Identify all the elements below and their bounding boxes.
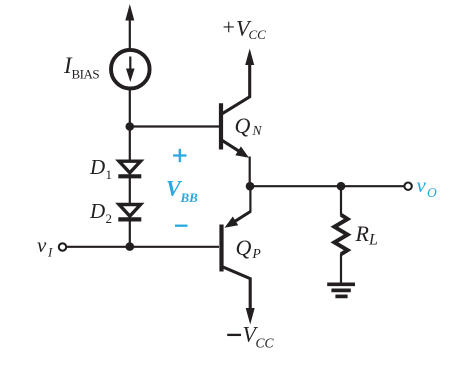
svg-text:L: L (368, 232, 378, 249)
Q_N collector lead (222, 61, 250, 114)
wire: output rail horizontal to v_O (250, 185, 404, 187)
wire: current source to node A (129, 89, 131, 127)
svg-text:I: I (47, 245, 53, 260)
ground (327, 284, 355, 296)
svg-text:v: v (417, 173, 427, 197)
Q_N base bar (219, 103, 223, 149)
label -VCC (227, 334, 241, 336)
svg-text:CC: CC (256, 336, 275, 351)
transistor Q_N (NPN) (221, 61, 250, 158)
transistor Q_P (PNP) (222, 212, 251, 310)
arrowhead to -VCC (246, 308, 255, 325)
Q_P base bar (219, 225, 223, 272)
label - (of V_BB, blue) (175, 225, 188, 227)
resistor R_L zigzag (334, 215, 347, 254)
label + (of V_BB, blue) (173, 149, 186, 162)
svg-text:D: D (89, 155, 105, 179)
arrowhead to +VCC (245, 49, 254, 66)
svg-text:+: + (223, 15, 235, 40)
terminal v_O (open circle) (404, 183, 411, 190)
svg-text:BIAS: BIAS (72, 67, 100, 82)
wire: output rail down to Q_P emitter (249, 186, 251, 212)
wire: Q_N emitter down to output rail (249, 157, 251, 187)
diode D1 (118, 161, 141, 176)
wire: R_L from output rail down to zigzag (340, 186, 342, 215)
Q_N emitter lead with arrow (222, 140, 240, 152)
wire: D1 cathode to D2 anode (129, 176, 131, 203)
diode D2 (118, 205, 141, 220)
svg-text:O: O (427, 185, 437, 200)
svg-text:N: N (252, 123, 263, 138)
svg-text:Q: Q (236, 235, 252, 260)
wire: node A to Q_N base (130, 125, 219, 127)
Q_P collector lead (223, 267, 251, 309)
node B (junction of D2, v_I, Q_P base) (126, 242, 135, 251)
node A (junction of I_BIAS, D1, Q_N base) (126, 122, 135, 131)
current source I_BIAS (111, 50, 150, 89)
svg-text:v: v (37, 233, 47, 257)
node: output rail at Q_N/Q_P emitters (246, 182, 255, 191)
svg-text:2: 2 (106, 211, 113, 226)
svg-text:1: 1 (106, 167, 113, 182)
wire: node A to D1 anode (129, 127, 131, 161)
node: output rail at R_L (337, 182, 346, 191)
wire: zigzag to ground (340, 254, 342, 285)
svg-text:D: D (89, 199, 105, 223)
Q_P emitter lead with arrow toward base bar (234, 212, 250, 222)
svg-text:Q: Q (235, 113, 251, 138)
svg-text:P: P (252, 246, 261, 261)
svg-text:R: R (355, 221, 370, 246)
wire: v_I terminal to node B to Q_P base (66, 246, 219, 248)
svg-text:BB: BB (180, 190, 199, 205)
wire: D2 cathode to node B (129, 219, 131, 246)
svg-text:CC: CC (249, 27, 267, 42)
terminal v_I (open circle) (59, 243, 66, 250)
wire: supply lead above current source with up arrow (125, 4, 134, 49)
